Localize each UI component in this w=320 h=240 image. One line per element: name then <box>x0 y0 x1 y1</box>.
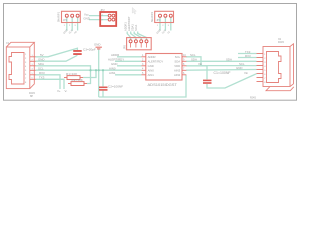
svg-text:ADS1015IDGST: ADS1015IDGST <box>148 82 178 87</box>
svg-text:2: 2 <box>264 58 266 60</box>
svg-text:C2=100NF: C2=100NF <box>108 85 123 89</box>
svg-text:V-: V- <box>65 89 68 93</box>
svg-text:GND: GND <box>83 16 89 20</box>
svg-text:3: 3 <box>264 62 266 64</box>
svg-text:AIN0: AIN0 <box>109 66 116 70</box>
svg-text:4: 4 <box>25 66 27 68</box>
svg-text:SDA1: SDA1 <box>131 24 135 31</box>
svg-text:VCC: VCC <box>161 29 167 35</box>
svg-text:C3=20pF: C3=20pF <box>83 47 96 51</box>
svg-text:AIN3: AIN3 <box>174 69 181 73</box>
svg-text:JP1: JP1 <box>63 19 68 22</box>
svg-text:RJ45: RJ45 <box>278 41 284 44</box>
svg-text:1: 1 <box>264 54 266 56</box>
svg-text:Vin: Vin <box>244 71 249 75</box>
svg-text:ALERT/RDY: ALERT/RDY <box>148 60 164 64</box>
svg-text:AIN2: AIN2 <box>174 73 181 77</box>
svg-text:5: 5 <box>25 70 27 72</box>
svg-text:ALERT/RDY: ALERT/RDY <box>108 58 124 62</box>
svg-text:2: 2 <box>69 25 71 27</box>
svg-text:Vin: Vin <box>198 62 203 66</box>
svg-text:AIN1: AIN1 <box>109 71 116 75</box>
svg-text:ADDR1: ADDR1 <box>124 22 128 31</box>
svg-text:VDD: VDD <box>174 64 180 68</box>
svg-text:SCL: SCL <box>190 53 196 57</box>
svg-text:6: 6 <box>25 74 27 76</box>
svg-text:SCL: SCL <box>38 67 44 71</box>
svg-text:7: 7 <box>25 78 27 80</box>
svg-text:6: 6 <box>264 74 266 76</box>
svg-text:AIN1: AIN1 <box>148 73 155 77</box>
svg-text:GND: GND <box>38 58 44 62</box>
svg-text:2: 2 <box>25 58 27 60</box>
svg-text:GND: GND <box>94 42 100 46</box>
svg-text:1: 1 <box>25 54 27 56</box>
svg-text:SHARP2: SHARP2 <box>150 11 154 22</box>
svg-text:JP2: JP2 <box>100 8 105 12</box>
svg-text:2: 2 <box>162 25 164 27</box>
svg-text:SHARP1: SHARP1 <box>57 11 61 22</box>
svg-text:R1=10K: R1=10K <box>66 72 78 76</box>
svg-text:AIN0: AIN0 <box>148 69 155 73</box>
svg-text:5: 5 <box>264 70 266 72</box>
svg-text:C1=100NF: C1=100NF <box>214 71 231 75</box>
svg-text:SDA: SDA <box>191 58 197 62</box>
svg-text:ALERT/RDY: ALERT/RDY <box>127 16 131 31</box>
svg-text:3: 3 <box>74 25 76 27</box>
svg-text:RX3: RX3 <box>245 54 251 58</box>
svg-text:SDA: SDA <box>174 60 180 64</box>
svg-text:ADDR: ADDR <box>111 53 119 57</box>
svg-text:SDA: SDA <box>38 62 44 66</box>
svg-text:7: 7 <box>264 78 266 80</box>
svg-text:1: 1 <box>157 25 159 27</box>
svg-text:5V: 5V <box>40 53 44 57</box>
svg-text:ADDR: ADDR <box>148 55 156 59</box>
svg-text:SDA: SDA <box>226 58 232 62</box>
svg-text:RJ45: RJ45 <box>250 97 256 100</box>
svg-text:JP5: JP5 <box>123 44 127 49</box>
svg-text:4: 4 <box>264 66 266 68</box>
svg-text:TX3: TX3 <box>39 76 45 80</box>
svg-text:JP3: JP3 <box>156 19 161 22</box>
svg-text:V+: V+ <box>57 89 61 93</box>
svg-text:RX3: RX3 <box>39 71 45 75</box>
svg-text:GND: GND <box>236 66 242 70</box>
svg-text:3: 3 <box>168 25 170 27</box>
svg-text:8: 8 <box>25 82 27 84</box>
svg-text:1: 1 <box>64 25 66 27</box>
svg-text:A1: A1 <box>167 30 172 35</box>
svg-text:SCL1: SCL1 <box>134 24 138 31</box>
svg-text:VCC: VCC <box>68 29 74 35</box>
svg-text:3: 3 <box>25 62 27 64</box>
svg-text:R2=10K: R2=10K <box>72 78 84 82</box>
svg-text:SCL: SCL <box>175 55 181 59</box>
svg-text:X1: X1 <box>6 41 10 45</box>
svg-text:8: 8 <box>264 82 266 84</box>
svg-text:GND: GND <box>148 64 154 68</box>
svg-text:A0: A0 <box>74 30 79 35</box>
svg-text:8P: 8P <box>30 95 33 98</box>
